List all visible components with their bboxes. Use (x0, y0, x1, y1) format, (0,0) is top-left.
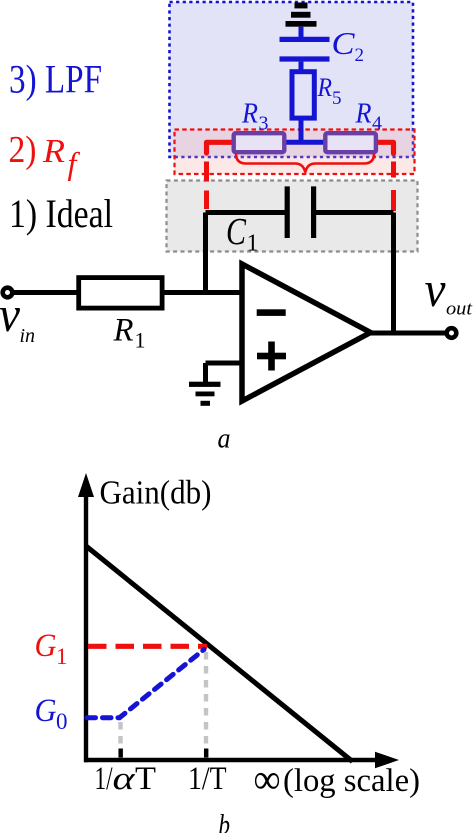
wire plus input (206, 361, 243, 366)
svg-text:1/T: 1/T (188, 761, 227, 797)
gridline at 1/alphaT (gray dotted) (118, 722, 122, 757)
svg-text:R: R (355, 99, 372, 130)
svg-text:1/: 1/ (95, 761, 114, 797)
wire dashed left (red) (204, 162, 209, 210)
resistor R5 (292, 72, 314, 118)
resistor R3 (234, 133, 285, 152)
G1 dashed line (red) (88, 644, 207, 649)
Ideal region box (gray dotted) (167, 181, 418, 252)
svg-text:R: R (241, 99, 258, 130)
svg-text:b: b (219, 810, 231, 833)
terminal input (3, 288, 13, 298)
svg-text:1: 1 (247, 231, 259, 257)
svg-text:0: 0 (56, 709, 68, 734)
capacitor C1 (206, 186, 394, 238)
svg-text:v: v (425, 261, 447, 317)
wire Rf left (red) (207, 142, 235, 153)
svg-text:1) Ideal: 1) Ideal (9, 191, 113, 236)
wire R1 to op-amp (162, 290, 242, 295)
svg-text:f: f (68, 145, 81, 181)
svg-text:3) LPF: 3) LPF (9, 57, 102, 102)
wire feedback left vertical (203, 213, 208, 293)
svg-text:R: R (113, 313, 134, 349)
svg-text:Gain(db): Gain(db) (100, 475, 212, 512)
svg-text:(log scale): (log scale) (283, 763, 420, 799)
svg-text:1: 1 (56, 644, 68, 669)
capacitor C2 (280, 27, 330, 73)
ground (op-amp plus input) (189, 363, 221, 406)
wire between R3 and R4 (blue) (284, 140, 326, 145)
svg-text:C: C (226, 211, 247, 253)
Rf region box (red dashed) (175, 130, 415, 175)
svg-text:C: C (332, 25, 356, 61)
svg-text:T: T (135, 761, 156, 797)
terminal output (447, 328, 457, 338)
svg-text:2): 2) (9, 129, 37, 171)
wire feedback right vertical (391, 213, 396, 334)
x axis (84, 758, 381, 763)
svg-text:5: 5 (332, 88, 342, 109)
ground (top, inverted) (286, 3, 317, 27)
wire input (12, 290, 79, 295)
LPF region box (blue dotted) (170, 2, 414, 157)
tick 1/T (204, 749, 208, 758)
svg-text:G: G (35, 628, 57, 664)
svg-text:2: 2 (355, 45, 365, 66)
gridline at 1/T (gray dotted) (204, 652, 208, 757)
svg-text:∞: ∞ (254, 757, 281, 803)
resistor R4 (325, 133, 376, 152)
svg-text:a: a (218, 423, 231, 455)
svg-text:R: R (42, 133, 65, 170)
wire R5 to Rf node (blue) (299, 118, 304, 142)
wire Rf right (red) (376, 142, 394, 153)
gain line (diagonal) (86, 546, 353, 762)
svg-text:in: in (20, 325, 36, 347)
op-amp U1 (242, 264, 371, 401)
svg-text:G: G (35, 693, 57, 729)
wire dashed right (red) (391, 162, 396, 212)
svg-text:α: α (113, 761, 136, 797)
G0 dotted line (blue) (87, 650, 204, 718)
op-amp minus sign (257, 309, 286, 316)
resistor R1 (79, 278, 162, 309)
svg-text:R: R (317, 73, 333, 102)
y axis (84, 494, 88, 762)
tick 1/alphaT (119, 749, 123, 758)
brace Rf (red) (236, 154, 374, 173)
wire output (370, 331, 447, 336)
svg-text:out: out (446, 299, 473, 320)
svg-text:1: 1 (135, 328, 146, 353)
op-amp plus sign (257, 342, 286, 371)
svg-text:v: v (0, 286, 21, 342)
